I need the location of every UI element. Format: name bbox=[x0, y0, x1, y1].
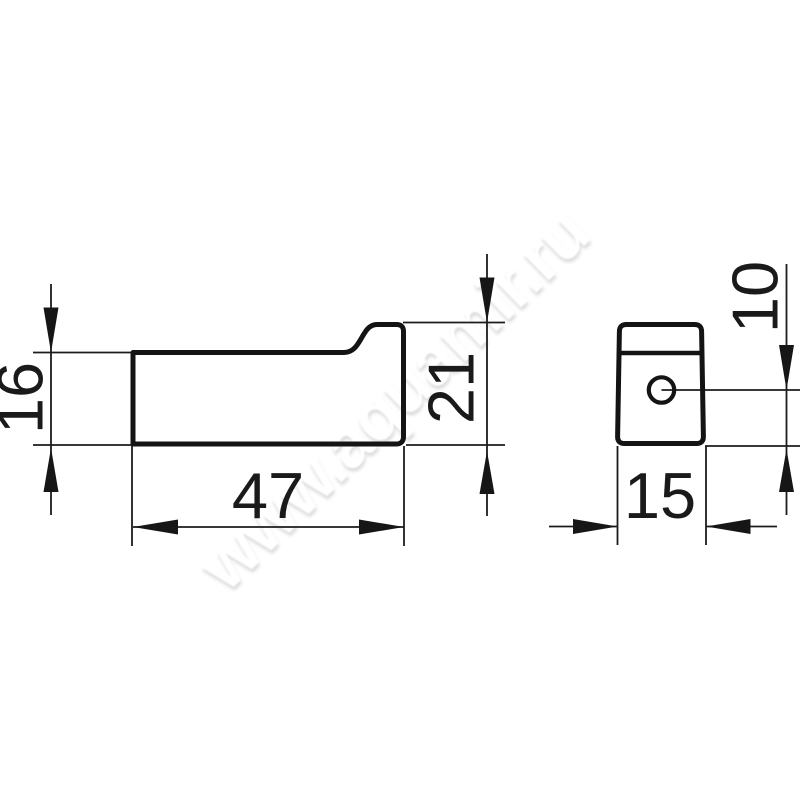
svg-text:10: 10 bbox=[719, 261, 792, 333]
svg-text:15: 15 bbox=[624, 459, 696, 532]
svg-text:16: 16 bbox=[0, 362, 57, 434]
svg-text:21: 21 bbox=[415, 352, 488, 424]
svg-text:47: 47 bbox=[232, 459, 304, 532]
